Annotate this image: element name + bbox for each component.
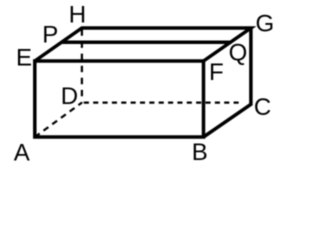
wire hidden edge D-C (dashed) bbox=[84, 101, 243, 103]
svg-text:H: H bbox=[69, 2, 86, 29]
wire segment P-Q on top face bbox=[61, 41, 231, 45]
wire top face E-H-G-F bbox=[35, 28, 251, 61]
svg-text:G: G bbox=[256, 11, 275, 38]
svg-text:P: P bbox=[42, 22, 58, 49]
svg-text:D: D bbox=[61, 83, 78, 110]
svg-text:F: F bbox=[209, 59, 224, 86]
svg-text:A: A bbox=[14, 140, 30, 167]
svg-text:B: B bbox=[192, 139, 208, 166]
wire front face A-B-F-E bbox=[35, 61, 204, 137]
svg-text:Q: Q bbox=[229, 40, 248, 67]
svg-text:E: E bbox=[16, 44, 32, 71]
svg-text:C: C bbox=[254, 94, 271, 121]
wire hidden edge A-D (dashed) bbox=[35, 103, 82, 137]
wire hidden edge D-H (dashed) bbox=[81, 29, 83, 102]
wire right face B-C-G bbox=[204, 28, 251, 137]
